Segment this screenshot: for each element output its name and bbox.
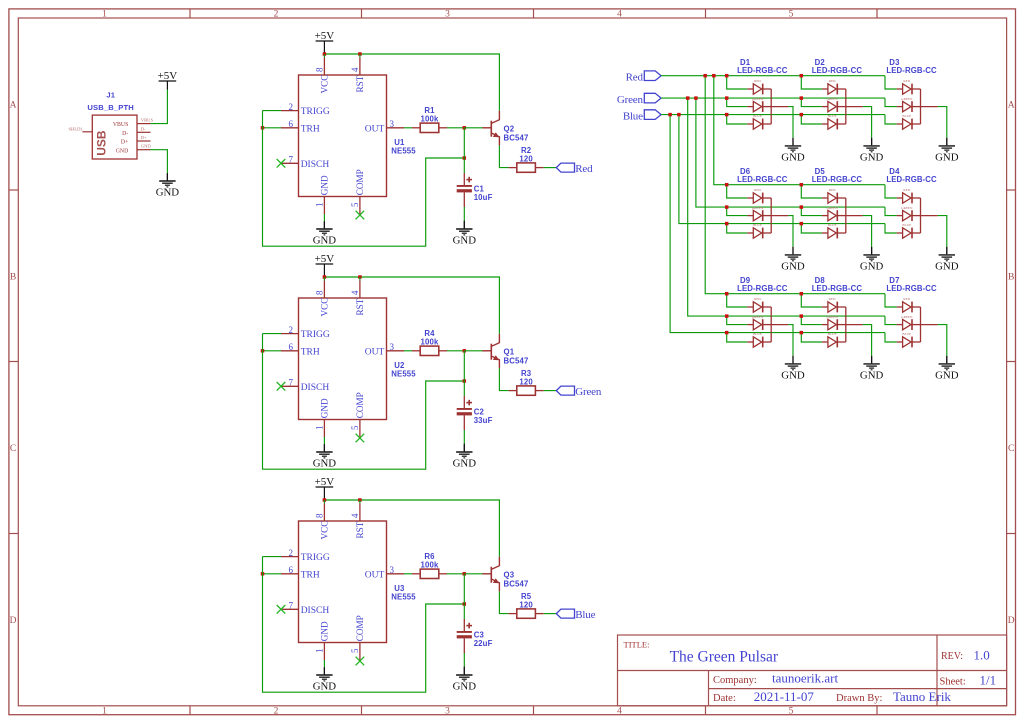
svg-text:100k: 100k — [421, 338, 439, 347]
diode D6 green anode stub — [747, 215, 753, 217]
pin 3 OUT stub — [387, 350, 405, 352]
ground for D4 — [935, 247, 959, 273]
title block outline — [618, 635, 1007, 706]
frame column tick (bottom) — [189, 706, 191, 715]
wire +5V rail of U3 — [324, 500, 499, 557]
capacitor C1 bottom lead — [463, 192, 465, 207]
LED D7 cathode extension — [921, 324, 938, 326]
pin D- stub — [137, 131, 151, 133]
wire — [359, 500, 361, 504]
ground for D1 — [781, 138, 805, 164]
svg-text:GREEN: GREEN — [826, 97, 838, 101]
svg-text:LED-RGB-CC: LED-RGB-CC — [812, 175, 863, 184]
svg-text:VCC: VCC — [320, 298, 330, 317]
wire +5V rail of U1 — [324, 54, 499, 111]
svg-text:C: C — [10, 444, 16, 454]
pin 7 DISCH stub — [281, 385, 299, 387]
svg-text:GREEN: GREEN — [752, 206, 764, 210]
diode D1 red channel — [753, 84, 771, 95]
wire node to capacitor — [463, 351, 465, 396]
svg-text:BLUE: BLUE — [828, 332, 837, 336]
wire — [323, 500, 325, 504]
diode D8 green channel — [828, 319, 846, 330]
svg-text:GND: GND — [935, 261, 959, 273]
svg-text:GND: GND — [860, 370, 884, 382]
wire cathode of D9 to ground — [788, 325, 793, 356]
diode D3 red channel — [903, 84, 921, 95]
svg-text:BC547: BC547 — [504, 579, 529, 588]
resistor R2 right stub — [535, 167, 543, 169]
svg-text:1: 1 — [102, 10, 107, 20]
pin 5 COMP stub — [359, 643, 361, 661]
svg-text:GND: GND — [320, 398, 330, 418]
diode D4 blue anode stub — [897, 232, 903, 234]
svg-text:LED-RGB-CC: LED-RGB-CC — [737, 66, 788, 75]
transistor Q2 base stub — [482, 127, 491, 129]
LED D3 cathode extension — [921, 106, 938, 108]
svg-text:D: D — [10, 616, 17, 626]
resistor R6 right stub — [439, 573, 447, 575]
svg-text:6: 6 — [289, 119, 294, 129]
diode D5 blue channel — [828, 228, 846, 239]
junction D6 green feed — [725, 205, 729, 209]
wire cathode of D4 to ground — [938, 216, 947, 247]
diode D3 red anode stub — [897, 88, 903, 90]
resistor R3 body — [517, 386, 536, 395]
ground for C3 — [453, 667, 477, 693]
pin 3 OUT stub — [387, 573, 405, 575]
junction D9 blue feed — [725, 331, 729, 335]
wire column-3 red feed elbow row 1 — [885, 76, 897, 89]
wire resistor to node — [447, 127, 464, 129]
LED D6 cathode extension — [771, 215, 788, 217]
ground for D5 — [860, 247, 884, 273]
svg-text:2: 2 — [274, 707, 279, 717]
ground for D2 — [860, 138, 884, 164]
svg-text:D+: D+ — [121, 140, 128, 146]
no-connect X on COMP of U2 — [356, 434, 365, 443]
wire — [946, 356, 948, 364]
wire red drop to row 2 — [714, 76, 885, 185]
svg-text:LED-RGB-CC: LED-RGB-CC — [886, 175, 937, 184]
svg-text:GND: GND — [860, 261, 884, 273]
svg-text:C: C — [1008, 444, 1014, 454]
transistor Q1 base bar — [490, 344, 492, 360]
pin 3 OUT stub — [387, 127, 405, 129]
wire — [323, 277, 325, 281]
diode D1 red anode stub — [747, 88, 753, 90]
svg-text:GND: GND — [141, 144, 152, 149]
LED D5 common cathode rail — [845, 198, 847, 233]
svg-text:SHLD1: SHLD1 — [69, 127, 84, 132]
svg-text:120: 120 — [519, 154, 533, 163]
frame row tick (left) — [9, 189, 18, 191]
wire anode feed D8 red — [801, 294, 822, 307]
transistor Q1 emitter lead — [492, 356, 500, 368]
svg-text:BC547: BC547 — [504, 133, 529, 142]
wire +5V rail of U2 — [324, 277, 499, 334]
pin 2 TRIGG stub — [281, 556, 299, 558]
diode D7 red anode stub — [897, 306, 903, 308]
svg-text:GND: GND — [156, 187, 180, 199]
junction — [323, 498, 327, 502]
transistor Q2 collector lead — [492, 111, 500, 124]
svg-text:OUT: OUT — [365, 124, 385, 134]
wire anode feed D2 green — [801, 98, 822, 107]
wire — [463, 444, 465, 452]
ground for C1 — [453, 221, 477, 247]
junction — [358, 498, 362, 502]
pin 5 COMP stub — [359, 197, 361, 215]
LED D1 common cathode rail — [770, 89, 772, 124]
wire anode feed D9 blue — [727, 333, 748, 342]
junction blue row3 tap — [668, 113, 672, 117]
svg-text:1: 1 — [315, 426, 325, 431]
IC U2 NE555 body — [299, 298, 387, 420]
wire column-3 green feed elbow row 1 — [885, 98, 897, 107]
junction D6 blue feed — [725, 222, 729, 226]
diode D9 red anode stub — [747, 306, 753, 308]
wire blue bus row 1 — [661, 114, 885, 116]
capacitor C3 top plate — [457, 631, 472, 633]
diode D9 green channel — [753, 319, 771, 330]
wire — [359, 54, 361, 58]
transistor Q3 base stub — [482, 573, 491, 575]
svg-text:RST: RST — [355, 521, 365, 538]
ground for D3 — [935, 138, 959, 164]
svg-text:GND: GND — [935, 370, 959, 382]
wire — [871, 247, 873, 255]
wire anode feed D1 blue — [727, 115, 748, 124]
svg-text:RED: RED — [754, 297, 761, 301]
svg-text:REV:: REV: — [941, 651, 963, 662]
svg-text:TITLE:: TITLE: — [624, 640, 650, 650]
transistor Q1 collector lead — [492, 334, 500, 347]
LED D3 common cathode rail — [920, 89, 922, 124]
wire TRH — [263, 127, 282, 129]
pin 7 DISCH stub — [281, 162, 299, 164]
resistor R1 body — [420, 123, 439, 132]
LED D4 cathode extension — [921, 215, 938, 217]
svg-text:Sheet:: Sheet: — [940, 676, 966, 687]
svg-text:GND: GND — [781, 370, 805, 382]
svg-text:TRH: TRH — [301, 124, 320, 134]
svg-text:BLUE: BLUE — [753, 114, 762, 118]
svg-text:1: 1 — [315, 649, 325, 654]
diode D5 blue anode stub — [822, 232, 828, 234]
frame column tick (top) — [533, 9, 535, 18]
capacitor C3 plus sign — [466, 623, 472, 629]
svg-text:VBUS: VBUS — [141, 118, 154, 123]
wire resistor to net flag — [544, 167, 557, 169]
pin 1 GND stub — [323, 197, 325, 215]
svg-text:GREEN: GREEN — [901, 206, 913, 210]
wire capacitor to ground — [463, 207, 465, 221]
pin 8 VCC stub — [323, 504, 325, 522]
svg-text:OUT: OUT — [365, 347, 385, 357]
frame column tick (bottom) — [533, 706, 535, 715]
wire OUT to resistor — [404, 127, 412, 129]
wire column-3 red feed elbow row 2 — [885, 185, 897, 198]
svg-text:1: 1 — [102, 707, 107, 717]
svg-text:taunoerik.art: taunoerik.art — [772, 670, 838, 685]
diode D4 green channel — [903, 210, 921, 221]
svg-text:Red: Red — [575, 163, 593, 175]
capacitor C1 top lead — [463, 173, 465, 185]
svg-text:D+: D+ — [141, 135, 147, 140]
transistor Q3 emitter arrow — [493, 578, 499, 583]
diode D2 blue channel — [828, 119, 846, 130]
svg-text:GND: GND — [781, 261, 805, 273]
svg-text:The Green Pulsar: The Green Pulsar — [670, 648, 779, 665]
wire anode feed D8 blue — [801, 333, 822, 342]
capacitor C2 top lead — [463, 396, 465, 408]
wire — [946, 247, 948, 255]
svg-text:D-: D- — [122, 131, 128, 137]
LED D4 common cathode rail — [920, 198, 922, 233]
pin 6 TRH stub — [281, 350, 299, 352]
wire — [871, 138, 873, 146]
wire cathode of D7 to ground — [938, 325, 947, 356]
svg-text:GREEN: GREEN — [901, 315, 913, 319]
wire anode feed D2 red — [801, 76, 822, 89]
net flag Green (LED side) — [617, 93, 661, 106]
wire anode feed D6 green — [727, 207, 748, 216]
svg-text:3: 3 — [445, 10, 450, 20]
resistor R5 body — [517, 609, 536, 618]
wire node to capacitor — [463, 128, 465, 173]
LED D2 cathode extension — [846, 106, 863, 108]
svg-text:COMP: COMP — [355, 615, 365, 641]
wire anode feed D6 red — [727, 185, 748, 198]
wire anode feed D1 red — [727, 76, 748, 89]
svg-text:BLUE: BLUE — [828, 114, 837, 118]
+5V supply for U2 — [315, 253, 335, 265]
junction D5 red feed — [800, 183, 804, 187]
wire resistor to node — [447, 573, 464, 575]
svg-text:BLUE: BLUE — [828, 223, 837, 227]
svg-text:A: A — [10, 100, 17, 110]
diode D1 green anode stub — [747, 106, 753, 108]
junction D5 green feed — [800, 205, 804, 209]
+5V supply for U3 — [315, 476, 335, 488]
diode D8 red anode stub — [822, 306, 828, 308]
capacitor C2 bottom lead — [463, 415, 465, 430]
svg-text:GND: GND — [781, 152, 805, 164]
diode D2 green channel — [828, 101, 846, 112]
diode D4 red anode stub — [897, 197, 903, 199]
net flag Green — [556, 386, 602, 398]
diode D2 red anode stub — [822, 88, 828, 90]
svg-text:USB: USB — [95, 130, 109, 156]
junction blue row2 tap — [677, 113, 681, 117]
pin 7 DISCH stub — [281, 608, 299, 610]
wire feedback left — [263, 557, 465, 693]
+5V supply for U1 — [315, 30, 335, 42]
svg-text:RED: RED — [829, 297, 836, 301]
diode D6 red anode stub — [747, 197, 753, 199]
svg-text:VBUS: VBUS — [113, 122, 128, 128]
svg-text:GND: GND — [935, 152, 959, 164]
svg-text:120: 120 — [519, 600, 533, 609]
resistor R3 left stub — [509, 390, 517, 392]
svg-text:GND: GND — [453, 235, 477, 247]
title block row divider — [618, 670, 1007, 672]
diode D5 red anode stub — [822, 197, 828, 199]
svg-text:4: 4 — [350, 513, 360, 518]
svg-text:BC547: BC547 — [504, 356, 529, 365]
wire anode feed D9 green — [727, 316, 748, 325]
svg-text:DISCH: DISCH — [301, 160, 330, 170]
svg-text:3: 3 — [390, 119, 395, 129]
wire blue drop to row 2 — [679, 115, 885, 224]
svg-text:7: 7 — [289, 155, 294, 165]
svg-text:4: 4 — [617, 707, 622, 717]
frame column tick (bottom) — [876, 706, 878, 715]
svg-text:NE555: NE555 — [391, 146, 416, 155]
wire — [323, 221, 325, 228]
junction TRIGG/TRH — [261, 349, 265, 353]
svg-text:NE555: NE555 — [391, 369, 416, 378]
diode D3 blue channel — [903, 119, 921, 130]
svg-text:LED-RGB-CC: LED-RGB-CC — [886, 66, 937, 75]
junction D8 red feed — [800, 292, 804, 296]
diode D8 red channel — [828, 302, 846, 313]
junction TRIGG/TRH — [261, 572, 265, 576]
wire cathode of D5 to ground — [863, 216, 872, 247]
svg-text:GND: GND — [313, 681, 337, 693]
capacitor C3 top lead — [463, 619, 465, 631]
diode D7 blue anode stub — [897, 341, 903, 343]
pin SHLD1 stub — [82, 131, 92, 133]
svg-text:100k: 100k — [421, 561, 439, 570]
no-connect X on DISCH of U3 — [277, 605, 286, 614]
wire anode feed D6 blue — [727, 224, 748, 233]
svg-text:RED: RED — [903, 79, 910, 83]
svg-text:LED-RGB-CC: LED-RGB-CC — [812, 284, 863, 293]
svg-text:D-: D- — [141, 126, 146, 131]
diode D8 blue anode stub — [822, 341, 828, 343]
diode D1 blue channel — [753, 119, 771, 130]
wire blue drop to row 3 — [670, 115, 885, 333]
net flag Red — [556, 163, 593, 175]
resistor R4 left stub — [412, 350, 420, 352]
svg-text:TRIGG: TRIGG — [301, 107, 330, 117]
junction feedback/cap — [463, 156, 467, 160]
junction TRIGG/TRH — [261, 126, 265, 130]
resistor R2 body — [517, 163, 536, 172]
capacitor C2 bottom plate — [457, 412, 472, 415]
wire capacitor to ground — [463, 653, 465, 667]
svg-text:GREEN: GREEN — [752, 97, 764, 101]
junction — [358, 275, 362, 279]
junction D1 blue feed — [725, 113, 729, 117]
wire emitter down — [499, 368, 508, 390]
capacitor C3 bottom plate — [457, 635, 472, 638]
svg-text:8: 8 — [315, 67, 325, 72]
svg-text:1.0: 1.0 — [974, 648, 990, 663]
diode D4 blue channel — [903, 228, 921, 239]
wire — [323, 667, 325, 674]
svg-text:GND: GND — [320, 621, 330, 641]
pin 5 COMP stub — [359, 420, 361, 438]
resistor R6 body — [420, 569, 439, 578]
wire cathode of D8 to ground — [863, 325, 872, 356]
wire — [359, 277, 361, 281]
junction D2 green feed — [800, 96, 804, 100]
svg-text:B: B — [10, 272, 16, 282]
resistor R4 right stub — [439, 350, 447, 352]
svg-text:6: 6 — [289, 342, 294, 352]
ground for D9 — [781, 356, 805, 382]
svg-text:Blue: Blue — [623, 110, 643, 122]
LED D7 common cathode rail — [920, 307, 922, 342]
pin 8 VCC stub — [323, 58, 325, 76]
wire resistor to node — [447, 350, 464, 352]
capacitor C2 plus sign — [466, 400, 472, 406]
diode D5 red channel — [828, 193, 846, 204]
svg-text:GREEN: GREEN — [901, 97, 913, 101]
wire TRIGG — [263, 110, 282, 112]
diode D6 green channel — [753, 210, 771, 221]
diode D9 green anode stub — [747, 324, 753, 326]
svg-text:GND: GND — [453, 458, 477, 470]
wire capacitor to ground — [463, 430, 465, 444]
svg-text:GND: GND — [320, 175, 330, 195]
svg-text:LED-RGB-CC: LED-RGB-CC — [812, 66, 863, 75]
frame row tick (left) — [9, 361, 18, 363]
LED D6 common cathode rail — [770, 198, 772, 233]
LED D8 common cathode rail — [845, 307, 847, 342]
pin GND stub — [137, 149, 151, 151]
title block company column divider — [708, 671, 710, 706]
diode D5 green anode stub — [822, 215, 828, 217]
svg-text:1/1: 1/1 — [980, 672, 997, 687]
wire — [323, 437, 325, 444]
ground for U2 pin 1 — [313, 444, 337, 470]
resistor R1 left stub — [412, 127, 420, 129]
wire column-3 blue feed elbow row 3 — [885, 333, 897, 342]
wire cathode of D6 to ground — [788, 216, 793, 247]
wire green drop to row 3 — [688, 98, 885, 316]
diode D7 red channel — [903, 302, 921, 313]
svg-text:GREEN: GREEN — [826, 206, 838, 210]
frame column tick (top) — [189, 9, 191, 18]
ground for D8 — [860, 356, 884, 382]
junction D1 red feed — [725, 74, 729, 78]
resistor R5 left stub — [509, 613, 517, 615]
frame column tick (top) — [705, 9, 707, 18]
capacitor C2 top plate — [457, 408, 472, 410]
transistor Q3 collector lead — [492, 557, 500, 570]
ground for U1 pin 1 — [313, 221, 337, 247]
svg-text:TRIGG: TRIGG — [301, 330, 330, 340]
+5V supply for J1 — [158, 70, 178, 82]
diode D2 red channel — [828, 84, 846, 95]
svg-text:4: 4 — [617, 10, 622, 20]
junction D8 green feed — [800, 314, 804, 318]
diode D9 blue channel — [753, 337, 771, 348]
svg-text:LED-RGB-CC: LED-RGB-CC — [737, 175, 788, 184]
junction node — [463, 126, 467, 130]
svg-text:33uF: 33uF — [474, 416, 493, 425]
svg-text:J1: J1 — [106, 90, 115, 99]
wire — [463, 667, 465, 675]
svg-text:A: A — [1008, 100, 1015, 110]
svg-text:120: 120 — [519, 377, 533, 386]
wire node to capacitor — [463, 574, 465, 619]
diode D4 red channel — [903, 193, 921, 204]
